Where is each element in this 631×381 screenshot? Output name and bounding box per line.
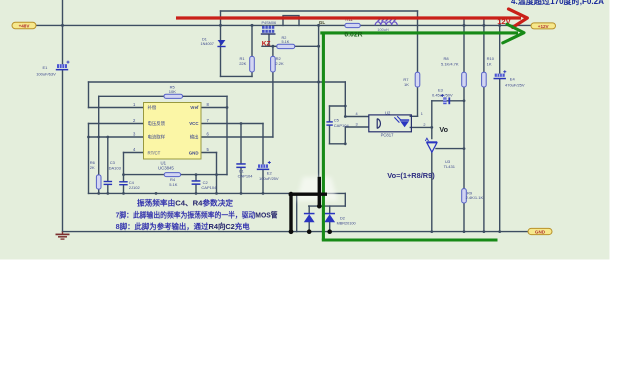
pin labels U1 <box>148 104 200 155</box>
svg-text:TL431: TL431 <box>444 164 456 169</box>
schematic sheet background <box>0 0 610 260</box>
svg-text:7脚：此脚输出的频率为振荡频率的一半，驱动MOS管: 7脚：此脚输出的频率为振荡频率的一半，驱动MOS管 <box>116 210 278 220</box>
value label E4 <box>505 77 525 88</box>
svg-text:E1: E1 <box>43 65 49 70</box>
resistor R1 <box>250 56 255 72</box>
wire opto pin4 row <box>345 116 368 118</box>
value label R4 <box>169 177 178 187</box>
value label R10 <box>487 56 495 66</box>
wire main +48V top rail <box>36 24 531 26</box>
wire E4 column <box>499 18 501 231</box>
wire R6 column <box>98 96 100 193</box>
wire pin1 left riser <box>88 82 90 193</box>
svg-text:100uF/25V: 100uF/25V <box>259 176 279 181</box>
svg-text:0.45uF/50V: 0.45uF/50V <box>432 92 453 97</box>
svg-text:5.1K: 5.1K <box>169 182 178 187</box>
svg-text:GND: GND <box>535 230 546 235</box>
value label E3 <box>432 88 453 98</box>
svg-text:2K: 2K <box>90 165 95 170</box>
ground symbol <box>56 232 70 240</box>
wire R8 R9 column <box>463 18 465 231</box>
black annotation blobs <box>289 192 332 234</box>
transistor Q1 winding symbol <box>261 26 276 35</box>
pin numbers U2 <box>356 112 426 127</box>
wire C1 column <box>240 124 242 194</box>
wire pin5 GND column <box>216 153 218 194</box>
svg-text:1K: 1K <box>404 82 409 87</box>
value label C2 <box>201 180 217 190</box>
wire return stub <box>296 193 298 231</box>
svg-text:KZ: KZ <box>262 40 271 47</box>
svg-text:100uH: 100uH <box>377 28 388 32</box>
capacitor C2 <box>192 180 201 185</box>
wire R10 column <box>483 18 485 231</box>
value label R2a <box>282 36 290 44</box>
svg-text:振荡频率由C4、R4参数决定: 振荡频率由C4、R4参数决定 <box>137 197 233 207</box>
wire Vref riser <box>226 96 228 174</box>
value label D1 <box>201 38 214 46</box>
wire pin3 row <box>89 136 144 138</box>
wire C5 right riser <box>344 82 346 144</box>
wire opto emitter row <box>410 126 432 128</box>
green annotation arrowhead <box>503 24 524 43</box>
wire D2b column <box>329 206 331 232</box>
svg-text:22K: 22K <box>239 61 246 66</box>
wire R7 column <box>417 11 419 116</box>
wire opto pin3 row <box>345 126 368 128</box>
value label R7 <box>403 77 409 87</box>
resistor R7 <box>415 72 420 87</box>
svg-text:E2: E2 <box>267 171 273 176</box>
wire C4 column <box>123 153 125 194</box>
wire D2a column <box>308 206 310 232</box>
green annotation bottom <box>322 238 498 241</box>
wire C5 top stub <box>330 105 346 107</box>
wire snubber bottom <box>221 75 253 77</box>
capacitor C1 <box>236 163 245 168</box>
capacitor C5 <box>326 121 332 126</box>
svg-text:RT/CT: RT/CT <box>148 150 161 155</box>
svg-text:R10: R10 <box>487 56 495 61</box>
resistor R6 <box>96 175 101 189</box>
wire pin6 output row <box>201 136 273 138</box>
wire top loop from transformer <box>221 10 418 12</box>
resistor R11 <box>345 23 360 27</box>
wire pin8 row <box>201 107 227 109</box>
svg-text:2.4K/1.1K: 2.4K/1.1K <box>466 195 484 200</box>
wire E1 input column <box>62 0 64 232</box>
svg-text:MBR20100: MBR20100 <box>337 222 356 226</box>
svg-text:2J102: 2J102 <box>129 185 141 190</box>
resistor R2 5.1K <box>277 44 295 48</box>
svg-text:2.2K: 2.2K <box>275 61 284 66</box>
wire D1 snubber column <box>220 11 222 76</box>
wire E3 row <box>432 100 464 102</box>
op-amp U1 UC3845 body <box>144 103 202 160</box>
value label R2b <box>275 56 284 66</box>
svg-text:1N4007: 1N4007 <box>201 42 214 46</box>
value label D2 <box>337 217 356 226</box>
green annotation vertical <box>322 33 325 240</box>
svg-text:GND: GND <box>189 150 199 155</box>
diode D2 left <box>304 213 315 222</box>
wire Vo node column <box>431 101 433 232</box>
svg-text:VCC: VCC <box>189 121 199 126</box>
node terminal GND <box>528 228 552 234</box>
opto LED and arrows <box>394 116 409 127</box>
node terminal +48V <box>12 22 36 28</box>
svg-text:+48V: +48V <box>19 24 31 29</box>
wire C2 column <box>195 175 197 194</box>
value label U3 <box>444 159 456 169</box>
value label R9 <box>466 191 484 201</box>
svg-text:E4: E4 <box>510 77 516 82</box>
wire TL431 ref row <box>436 148 464 150</box>
capacitor E2 <box>257 161 271 170</box>
wire pin4 row <box>124 152 144 154</box>
svg-text:输出: 输出 <box>190 134 199 141</box>
svg-text:1: 1 <box>421 112 423 116</box>
wire E2 column <box>262 124 264 194</box>
wire rectifier bar <box>309 205 346 207</box>
diode D2 right <box>324 213 335 222</box>
svg-text:10K: 10K <box>169 89 176 94</box>
red annotation halo <box>180 15 518 22</box>
pin numbers U1 <box>133 102 210 152</box>
wire transformer hump <box>283 16 299 26</box>
svg-text:1K: 1K <box>487 62 492 67</box>
wire C3 column <box>107 137 109 193</box>
diode D1 <box>217 40 225 47</box>
svg-text:CAP104: CAP104 <box>334 123 350 128</box>
svg-text:PC817: PC817 <box>381 133 394 138</box>
black annotation vertical 1 <box>289 194 292 231</box>
capacitor E4 <box>494 70 507 79</box>
capacitor C3 <box>104 181 113 185</box>
svg-text:100uF/63V: 100uF/63V <box>36 71 56 76</box>
wire C5 left branch <box>329 106 331 144</box>
svg-text:0.02R: 0.02R <box>344 32 362 39</box>
svg-text:UC3845: UC3845 <box>158 166 174 171</box>
value label E2 <box>259 171 279 181</box>
wire logic bottom rail <box>89 192 346 194</box>
value label R1 <box>239 56 246 66</box>
wire R2 column to pin6 <box>272 46 274 137</box>
resistor R9 <box>462 189 467 203</box>
wire pin5 row <box>201 152 217 154</box>
value label C3 <box>109 160 122 171</box>
svg-text:Vref: Vref <box>190 105 199 110</box>
resistor R5 <box>164 94 183 98</box>
wire R4 row <box>124 174 228 176</box>
value label R6 <box>90 160 96 170</box>
wire KZ gate row <box>262 45 319 47</box>
value label R5 <box>169 85 176 94</box>
resistor R10 <box>482 72 487 87</box>
wire C5 bottom stub <box>330 143 346 145</box>
wire GL drain column <box>318 25 320 206</box>
capacitor C4 <box>119 181 128 185</box>
wire Q1 gate stub <box>268 34 270 46</box>
black annotation horizontal <box>289 192 327 195</box>
wire R1 column <box>251 25 253 76</box>
value label C5 <box>334 118 350 128</box>
svg-text:补偿: 补偿 <box>148 104 157 111</box>
green annotation top rail <box>320 31 518 34</box>
svg-text:4.温度超过170度时,F0.2A: 4.温度超过170度时,F0.2A <box>511 0 604 6</box>
value label C1 <box>238 169 254 179</box>
wire pin1 row <box>89 107 144 109</box>
red annotation arrowhead <box>509 9 528 27</box>
inductor L1 <box>375 19 397 25</box>
svg-text:CAP104: CAP104 <box>201 185 217 190</box>
value label U1 <box>158 161 174 171</box>
svg-text:电流取样: 电流取样 <box>148 134 166 141</box>
svg-text:U2: U2 <box>385 111 391 116</box>
value label C4 <box>129 180 141 190</box>
svg-text:+12V: +12V <box>538 24 550 29</box>
svg-text:4: 4 <box>356 112 358 116</box>
transistor U3 TL431 <box>425 138 437 152</box>
resistor R4 <box>164 173 180 177</box>
svg-text:3: 3 <box>356 123 358 127</box>
capacitor E1 <box>56 61 70 71</box>
svg-text:DA103: DA103 <box>109 166 122 171</box>
wire pin7 VCC row <box>201 123 263 125</box>
wire ground rail <box>63 231 529 233</box>
resistor R2 2.2K <box>271 56 276 72</box>
svg-text:Vo=(1+R8/R9): Vo=(1+R8/R9) <box>387 171 435 180</box>
red annotation line 12V path <box>176 16 521 19</box>
black annotation vertical 2 <box>318 177 321 206</box>
svg-text:电压反馈: 电压反馈 <box>148 120 166 127</box>
highlight blob <box>296 177 338 201</box>
svg-text:2: 2 <box>423 123 425 127</box>
value label R8 <box>441 56 459 66</box>
svg-text:5.1K: 5.1K <box>282 40 290 44</box>
svg-text:5.1K/4.7K: 5.1K/4.7K <box>441 61 459 66</box>
capacitor E3 <box>441 94 450 104</box>
op-amp U2 PC817 body <box>369 115 412 132</box>
wire opto collector row <box>410 115 417 117</box>
wire R5 loop row <box>99 95 227 97</box>
resistor R8 <box>462 72 467 87</box>
svg-text:Vo: Vo <box>439 125 448 134</box>
svg-text:C3: C3 <box>110 160 116 165</box>
wire rectifier corner <box>344 193 346 206</box>
wire feedback long row <box>89 81 346 83</box>
svg-text:8脚：此脚为参考输出，通过R4向C2充电: 8脚：此脚为参考输出，通过R4向C2充电 <box>116 221 250 231</box>
value label E1 <box>36 65 56 76</box>
svg-text:470uF/25V: 470uF/25V <box>505 83 525 88</box>
wire pin2 row <box>89 123 144 125</box>
node terminal +12V <box>531 23 556 29</box>
svg-text:D2: D2 <box>340 217 345 221</box>
value label U2 <box>381 111 394 138</box>
svg-text:CAP104: CAP104 <box>238 173 254 178</box>
